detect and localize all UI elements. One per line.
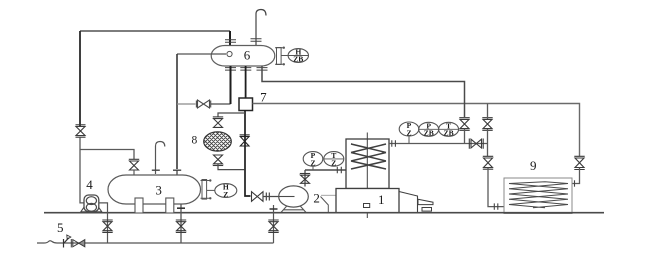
vessel 6 shell bbox=[211, 46, 275, 67]
valve V-80 on left riser bbox=[76, 125, 86, 137]
coil 9 box bbox=[504, 178, 572, 214]
pump 2 legs bbox=[281, 206, 307, 213]
wire filter branch bottom return bbox=[218, 164, 245, 170]
valve on riser x273.5 bbox=[268, 220, 278, 232]
wire unit 1 right outlet y143.5 bbox=[389, 143, 488, 145]
svg-text:3: 3 bbox=[155, 182, 162, 197]
pump 4 inner lobes bbox=[86, 197, 96, 205]
wire pump 2 drain riser x273.5 bbox=[273, 205, 275, 243]
wire vessel 6 bottom nozzle 1 drop bbox=[230, 66, 232, 104]
svg-text:7: 7 bbox=[260, 89, 267, 104]
instrument bubble P/Z tower bbox=[399, 121, 419, 137]
vessel 3 leg 1 bbox=[135, 198, 143, 213]
main ground line y212.7 bbox=[44, 212, 604, 214]
flange ticks vessel 6 bottom nozzle 2 bbox=[240, 68, 251, 71]
wire vessel 6 bottom nozzle 3 drop and header y81.5 bbox=[262, 66, 465, 117]
svg-text:5: 5 bbox=[57, 220, 64, 235]
pipe break squiggle bbox=[44, 241, 57, 243]
pump 2 suction line into casing bbox=[279, 196, 295, 198]
valve on x487.5 drop upper bbox=[482, 118, 492, 131]
wire x464.5 valve to junction y143.5 bbox=[464, 129, 466, 144]
flange ticks vessel 6 bottom nozzle 1 bbox=[225, 68, 236, 71]
tower coil bbox=[351, 144, 386, 169]
wire long header y103.5 from box 7 to right descent bbox=[253, 104, 580, 157]
label 2 leader lines bbox=[321, 194, 336, 196]
wire x487.5 drop bbox=[487, 104, 489, 157]
svg-text:Z: Z bbox=[310, 158, 315, 167]
valve on y143.5 between x464.5 and x487.5 bbox=[469, 139, 483, 149]
valve above vessel 3 nozzle bbox=[129, 159, 139, 170]
wire top header from node at x80 to vessel 6 top nozzle bbox=[80, 30, 230, 32]
flange ticks coil 9 left inlet bbox=[494, 203, 498, 209]
wire gauge to instrument H/ZB bbox=[281, 55, 288, 57]
vent pipe on vessel 6 bbox=[256, 10, 266, 46]
wire pump 2 discharge riser bbox=[304, 170, 306, 187]
svg-text:Z: Z bbox=[223, 190, 228, 199]
svg-text:ZB: ZB bbox=[424, 129, 434, 138]
wire vessel 6 left nozzle line down to vessel 3 bbox=[176, 54, 178, 169]
valve on riser x107.5 bbox=[102, 220, 112, 232]
valve on x464.5 riser bbox=[459, 118, 469, 131]
svg-text:4: 4 bbox=[86, 177, 93, 192]
wire valve to vessel 3 bbox=[133, 170, 135, 175]
flange ticks on y170 header bbox=[337, 167, 341, 174]
valve above filter 8 bbox=[213, 117, 223, 128]
valve below filter 8 bbox=[213, 155, 223, 166]
flange ticks vessel 6 vent nozzle bbox=[251, 39, 262, 42]
instrument bubble T/Z near pump 2 bbox=[324, 151, 344, 167]
level gauge vessel 3 bbox=[201, 180, 211, 200]
instrument stem P/Z tower bbox=[408, 136, 410, 144]
pump 4 base bbox=[81, 207, 102, 212]
wire filter branch top bbox=[218, 113, 245, 117]
tower centerline bbox=[366, 133, 368, 219]
flange tick coil 9 right inlet bbox=[574, 180, 576, 186]
instrument bubble P/Z near pump 2 bbox=[303, 151, 323, 167]
unit 1 right chute bbox=[399, 192, 418, 214]
wire branch to vessel 3 first top nozzle bbox=[80, 150, 134, 160]
wire discharge header y170 into unit 1 bbox=[305, 169, 346, 171]
unit 1 small foot rect bbox=[422, 208, 432, 212]
svg-text:8: 8 bbox=[192, 134, 198, 146]
vent pipe on vessel 3 bbox=[156, 142, 165, 175]
flange bar riser x273.5 bbox=[270, 208, 278, 210]
instrument bubble T/ZB bbox=[439, 121, 459, 137]
bottom drain header y243 bbox=[37, 242, 274, 244]
vessel 3 bottom nozzle drop bbox=[180, 204, 182, 243]
wire left riser x80 lower to pump 4 bbox=[80, 138, 85, 203]
svg-text:Z: Z bbox=[331, 158, 336, 167]
svg-text:Z: Z bbox=[406, 128, 411, 137]
svg-text:2: 2 bbox=[313, 190, 320, 205]
drain stem symbol item 5 bbox=[64, 238, 69, 248]
flange bar vessel 3 vent bbox=[152, 169, 160, 171]
gauge dots vessel 6 bbox=[283, 47, 285, 49]
valve between x177 line and vessel 6 bottom nozzle 1 bbox=[196, 100, 210, 108]
wire left riser x80 upper bbox=[79, 31, 81, 126]
flange ticks vessel 6 bottom nozzle 3 bbox=[257, 68, 268, 71]
wire box 7 bottom drop bbox=[245, 111, 251, 197]
flange ticks vessel 6 top nozzle 1 bbox=[225, 40, 236, 43]
svg-text:9: 9 bbox=[530, 158, 537, 173]
wire valve to nozzle 1 riser bbox=[211, 103, 231, 105]
wire gauge to H/Z bbox=[207, 189, 215, 191]
valve on right descent x579.5 bbox=[574, 156, 584, 169]
box item 7 bbox=[239, 98, 253, 111]
flange bar vessel 3 bottom nozzle bbox=[177, 207, 185, 209]
valve on riser x181 bbox=[176, 220, 186, 232]
flange bar at vessel 3 third top nozzle bbox=[173, 169, 181, 171]
unit 1 base bbox=[336, 189, 399, 213]
valve on x245 drop bbox=[240, 135, 250, 146]
instrument bubble P/ZB bbox=[419, 121, 439, 137]
valve pump 2 suction bbox=[252, 192, 270, 202]
wire into pump 2 bbox=[263, 196, 294, 198]
svg-text:1: 1 bbox=[378, 192, 385, 207]
vessel 3 leg 2 bbox=[166, 198, 174, 213]
node circle inside vessel 6 bbox=[227, 51, 232, 56]
instrument bubble H/Z bbox=[215, 183, 237, 199]
coil 9 serpentine bbox=[509, 182, 568, 208]
gauge dots vessel 3 bbox=[209, 179, 211, 181]
wire feed into vessel 6 left bbox=[177, 53, 226, 55]
svg-text:ZB: ZB bbox=[293, 55, 303, 64]
unit 1 cooler tower box bbox=[346, 139, 389, 189]
valve on pump 2 discharge bbox=[300, 174, 310, 184]
wire x487.5 to coil 9 inlet bbox=[488, 168, 504, 207]
small plate on base bbox=[364, 204, 370, 208]
pump 4 casing bbox=[84, 195, 99, 212]
pump 2 casing bbox=[279, 186, 309, 207]
svg-text:6: 6 bbox=[244, 48, 251, 63]
wire pump 4 outlet to riser x107.5 bbox=[99, 203, 108, 243]
filter 8 crosshatched bbox=[180, 124, 250, 159]
flange ticks at tower outlet bbox=[392, 140, 396, 146]
wire right descent to coil 9 right inlet bbox=[572, 168, 580, 184]
valve on x487.5 drop lower bbox=[483, 156, 493, 169]
wire vessel 6 bottom nozzle 2 drop to box 7 bbox=[245, 66, 247, 98]
wire drop into vessel 6 top nozzle 1 bbox=[229, 31, 231, 46]
level gauge on vessel 6 right end bbox=[275, 48, 284, 65]
valve item 5 bbox=[71, 239, 85, 247]
instrument stem P/Z near pump 2 bbox=[312, 166, 314, 170]
vessel 3 shell bbox=[108, 175, 201, 204]
wire branch y104 from x177 to valve bbox=[177, 103, 196, 105]
svg-text:ZB: ZB bbox=[444, 129, 454, 138]
unit 1 right wedge bbox=[418, 199, 433, 204]
instrument bubble H/ZB bbox=[288, 47, 308, 63]
